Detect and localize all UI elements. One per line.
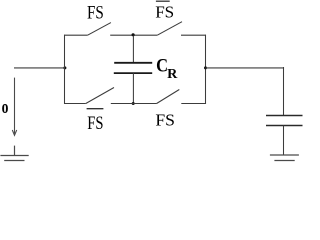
junction input node	[63, 66, 66, 69]
svg-text:FS: FS	[155, 3, 174, 22]
label FS-bar top-right	[155, 1, 174, 21]
junction bottom of C_R	[132, 102, 135, 105]
switch FS top-left blade	[88, 23, 111, 36]
junction top of C_R	[132, 33, 135, 36]
capacitor C_R	[114, 36, 152, 104]
ground right	[270, 155, 299, 161]
label FS-bar bottom-left	[87, 109, 104, 134]
svg-text:FS: FS	[87, 3, 104, 23]
switch FS-bar bottom-left blade	[86, 88, 114, 104]
wire left branch vertical	[64, 35, 66, 104]
svg-text:FS: FS	[87, 113, 103, 134]
voltage arrow vo	[12, 78, 16, 136]
svg-text:R: R	[167, 67, 178, 82]
wire output	[206, 67, 285, 69]
ground left	[0, 146, 28, 161]
svg-text:o: o	[2, 97, 9, 118]
wire bottom row right	[181, 103, 206, 105]
switch FS bottom-right blade	[157, 90, 180, 104]
wire top row left	[64, 34, 88, 36]
wire top row right	[181, 34, 206, 36]
junction output node	[204, 66, 207, 69]
wire top row middle	[110, 34, 157, 36]
capacitor load	[266, 67, 303, 155]
wire bottom row middle	[111, 103, 157, 105]
wire input node	[14, 67, 65, 69]
label C_R	[156, 56, 178, 82]
wire right column vertical	[205, 35, 207, 104]
svg-text:FS: FS	[155, 111, 175, 130]
switch FS-bar top-right blade	[157, 22, 182, 36]
wire bottom row left	[64, 103, 86, 105]
